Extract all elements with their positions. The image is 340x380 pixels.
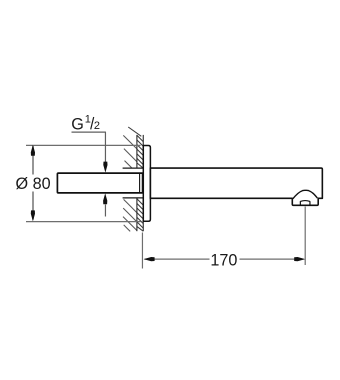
svg-text:Ø 80: Ø 80 [16,175,51,193]
svg-text:2: 2 [94,120,100,132]
svg-text:1: 1 [85,114,91,126]
svg-text:G: G [71,115,84,133]
svg-text:170: 170 [210,252,237,270]
